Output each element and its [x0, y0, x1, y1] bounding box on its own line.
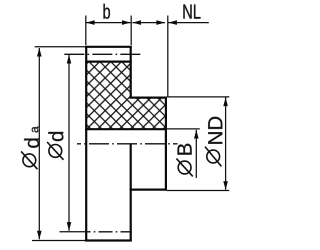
dim ND — [225, 98, 227, 190]
arrow ND bottom — [223, 181, 228, 190]
label Oda — [21, 151, 37, 169]
label OB letter B — [178, 144, 192, 155]
root line — [85, 60, 132, 62]
dash dot centerlines — [64, 54, 177, 232]
ext tip top left — [35, 46, 85, 48]
arrow B top — [194, 130, 199, 139]
arrow ND top — [223, 98, 228, 107]
dimension lines — [39, 23, 225, 240]
body right edge upper — [130, 46, 132, 99]
arrow d top — [67, 55, 72, 64]
arrow NL right — [156, 20, 165, 25]
arrowheads — [37, 20, 228, 239]
arrow da top — [37, 48, 42, 57]
label OB — [176, 159, 192, 177]
arrow b left — [86, 20, 95, 25]
body left edge — [85, 46, 87, 242]
thin extension lines — [32, 16, 229, 241]
hatch body+hub section — [87, 62, 165, 129]
gear outline thick — [85, 46, 167, 242]
ext top b left — [85, 16, 87, 46]
dim da — [38, 48, 40, 239]
dim NL leader — [168, 22, 209, 24]
arrow b right — [122, 20, 131, 25]
pitch line top — [64, 53, 140, 55]
dim b — [86, 22, 131, 24]
arrow NL leader — [168, 20, 177, 25]
ext top NL right — [167, 16, 169, 97]
hub bottom edge — [130, 189, 167, 191]
ext hub bottom right — [167, 190, 229, 192]
label OND letters ND — [208, 117, 222, 144]
tip top edge — [85, 46, 132, 48]
arrow d bottom — [67, 222, 72, 231]
label Oda subscript a — [32, 126, 39, 132]
label OND — [205, 147, 221, 167]
ext pitch bottom left — [60, 231, 87, 233]
bore line — [85, 128, 167, 130]
axis centerline — [77, 143, 178, 145]
hub top edge — [130, 96, 167, 98]
tip bottom edge — [85, 239, 132, 241]
body right edge lower — [130, 144, 132, 242]
ext top b right — [130, 16, 132, 46]
dim d — [68, 55, 70, 231]
ext tip bottom left — [32, 240, 85, 242]
label Od — [47, 142, 63, 160]
ext hub top right — [167, 96, 229, 98]
dim NL — [132, 22, 165, 24]
ext bore right — [167, 128, 200, 130]
label Od letter d — [48, 132, 63, 141]
arrow NL left — [132, 20, 141, 25]
label Oda letter d — [24, 139, 39, 148]
dim B — [195, 130, 197, 178]
pitch line bottom — [87, 231, 133, 233]
label b — [104, 4, 111, 19]
label NL — [183, 5, 200, 19]
hub right edge — [165, 97, 167, 191]
arrow da bottom — [37, 231, 42, 240]
